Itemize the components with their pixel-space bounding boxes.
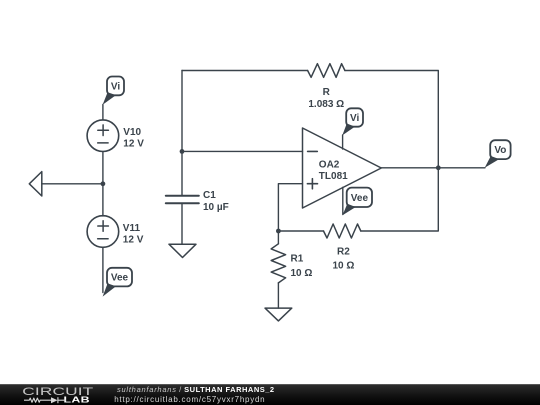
wire top-left vertical (node Vin- branch) [181, 71, 183, 196]
flag Vi (op-amp positive supply) [342, 108, 363, 135]
resistor R [308, 64, 345, 110]
wire node D to R2 [278, 230, 323, 232]
svg-text:V10: V10 [123, 127, 141, 138]
svg-text:R2: R2 [337, 247, 350, 258]
svg-text:Vo: Vo [494, 145, 506, 156]
flag Vo (output) [485, 140, 511, 168]
svg-text:Vi: Vi [111, 81, 120, 92]
svg-text:Vee: Vee [351, 193, 369, 204]
svg-text:12 V: 12 V [123, 139, 144, 150]
wire V11 to Vee flag [102, 247, 104, 292]
flag Vi (left, net Vi) [103, 77, 124, 105]
flag Vee (op-amp negative supply) [343, 188, 373, 216]
wire node B to op-amp inverting input [182, 150, 303, 152]
ground below C1 [169, 244, 196, 257]
wire non-inverting input to node D [278, 184, 302, 231]
svg-text:Vee: Vee [111, 273, 129, 284]
wire op-amp V+ pin stub [342, 135, 344, 149]
wire V10 to node A [102, 152, 104, 184]
CircuitLab logo resistor-diode glyph [24, 397, 66, 403]
svg-text:10 Ω: 10 Ω [291, 268, 313, 279]
svg-text:R: R [323, 87, 331, 98]
svg-text:R1: R1 [291, 254, 304, 265]
node A junction [101, 181, 106, 186]
svg-text:12 V: 12 V [123, 235, 144, 246]
voltage source V10 [87, 120, 144, 152]
capacitor C1 [166, 190, 229, 213]
svg-text:1.083 Ω: 1.083 Ω [308, 99, 344, 110]
svg-text:Vi: Vi [350, 113, 359, 124]
svg-text:http://circuitlab.com/c57yvxr7: http://circuitlab.com/c57yvxr7hpydn [114, 395, 265, 404]
footer title text [114, 385, 274, 404]
resistor R1 [271, 231, 312, 308]
svg-text:OA2: OA2 [319, 160, 340, 171]
node D junction [276, 229, 281, 234]
node B junction [180, 149, 185, 154]
ground below R1 [265, 308, 292, 321]
op-amp OA2 [303, 128, 382, 208]
svg-text:10 µF: 10 µF [203, 202, 229, 213]
CircuitLab logo wordmark [22, 386, 93, 405]
svg-text:10 Ω: 10 Ω [332, 261, 354, 272]
wire node C to R2 [361, 168, 439, 231]
wire top feedback right segment [345, 71, 438, 168]
wire op-amp V- pin stub [342, 187, 344, 214]
resistor R2 [324, 224, 361, 272]
wire Vi flag to V10 [102, 105, 104, 120]
svg-text:V11: V11 [123, 223, 141, 234]
node C junction (output) [436, 165, 441, 170]
svg-text:LAB: LAB [64, 396, 91, 404]
wire ground to node A [42, 183, 103, 185]
wire op-amp output to Vo [381, 167, 485, 169]
flag Vee (left, net Vee) [103, 268, 132, 297]
wire node A to V11 [102, 184, 104, 216]
footer bar [0, 384, 540, 405]
wire C1 to ground [181, 203, 183, 244]
wire top feedback left segment [182, 70, 308, 72]
ground GND (left arrow symbol) [29, 172, 42, 196]
voltage source V11 [87, 216, 144, 248]
svg-text:sulthanfarhans / SULTHAN FARHA: sulthanfarhans / SULTHAN FARHANS_2 [117, 385, 275, 394]
svg-text:C1: C1 [203, 190, 216, 201]
svg-text:TL081: TL081 [319, 171, 348, 182]
